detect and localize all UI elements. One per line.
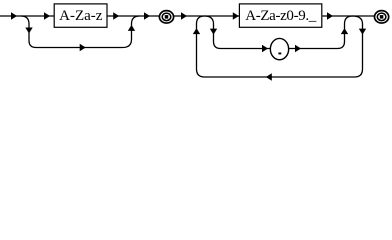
box1 A-Za-z [54, 4, 107, 27]
arrow up on middle rail return [341, 28, 348, 34]
arrow before box2 [233, 12, 239, 19]
wire: bottom rail [205, 76, 355, 78]
arrow before bullseye1 [144, 12, 150, 19]
node: section1 bypass path [21, 16, 140, 48]
wire: box1 to bullseye1 [107, 15, 159, 17]
arrow left on bottom rail [266, 73, 272, 80]
arrow up at left junction [193, 28, 200, 34]
wire: box2 to bullseye2 [323, 15, 375, 17]
arrow right on bypass rail [80, 44, 86, 51]
terminal circle with dot [270, 38, 288, 59]
arrow before box1 [44, 12, 50, 19]
box2 A-Za-z0-9._ [239, 4, 321, 27]
arrow down on bypass entry [25, 28, 32, 34]
arrow after bullseye1 [181, 12, 187, 19]
arrow right before dot circle [262, 45, 268, 52]
wire: main line start to box1 [0, 15, 54, 17]
node: section2 right junction (up merge) [345, 16, 353, 24]
arrow after box1 [113, 12, 119, 19]
wire: middle rail with loop verticals [214, 24, 271, 49]
node: section2 left junction (down branch) [205, 16, 214, 24]
arrow down on right loop vertical [359, 29, 366, 35]
arrow right after dot circle [295, 45, 301, 52]
node: section2 right junction (down branch) [353, 16, 363, 24]
arrow down on middle rail entry [210, 29, 217, 35]
wire: right loop vertical down to bottom rail [355, 24, 363, 77]
arrow up on bypass return [128, 25, 135, 31]
arrow on start wire [11, 12, 17, 19]
svg-text:A-Za-z: A-Za-z [59, 8, 103, 24]
wire: left loop vertical [197, 24, 205, 77]
bullseye1 [159, 11, 173, 23]
node: section2 left junction (up merge) [197, 16, 205, 24]
arrow after box2 [327, 12, 333, 19]
wire: bullseye1 to box2 [174, 15, 239, 17]
svg-text:A-Za-z0-9._: A-Za-z0-9._ [245, 8, 317, 24]
bullseye2 [375, 11, 389, 23]
